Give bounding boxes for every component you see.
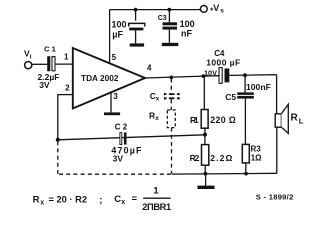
svg-text:1: 1 [64, 52, 69, 61]
svg-text:220 Ω: 220 Ω [210, 115, 236, 125]
svg-text:100nF: 100nF [246, 82, 271, 92]
svg-text:x: x [121, 199, 125, 206]
svg-text:3: 3 [113, 92, 118, 101]
svg-text:R: R [149, 111, 155, 121]
svg-text:= 20 · R2: = 20 · R2 [49, 194, 88, 204]
svg-text:C: C [114, 194, 121, 205]
svg-text:R: R [291, 113, 299, 124]
svg-text:µF: µF [112, 29, 123, 39]
svg-text:10V: 10V [204, 68, 217, 77]
svg-text:2.2Ω: 2.2Ω [210, 153, 232, 163]
svg-text:C5: C5 [225, 92, 236, 102]
svg-text:R1: R1 [190, 115, 199, 125]
svg-text:1Ω: 1Ω [251, 153, 262, 162]
svg-text:2ΠBR1: 2ΠBR1 [142, 202, 171, 212]
svg-text:C 2: C 2 [115, 122, 128, 131]
svg-text:S - 1899/2: S - 1899/2 [256, 193, 293, 202]
svg-text:;: ; [99, 195, 102, 206]
svg-text:V: V [213, 3, 219, 13]
svg-text:i: i [30, 54, 32, 61]
svg-text:100: 100 [180, 19, 195, 29]
svg-text:nF: nF [181, 28, 192, 38]
svg-text:TDA 2002: TDA 2002 [81, 73, 119, 83]
svg-text:R3: R3 [251, 145, 262, 154]
svg-text:3V: 3V [113, 153, 124, 163]
svg-text:=: = [132, 194, 138, 204]
svg-text:x: x [156, 96, 160, 103]
svg-text:3V: 3V [39, 80, 50, 90]
svg-text:R: R [33, 195, 40, 206]
svg-text:C 1: C 1 [44, 45, 57, 54]
svg-text:4: 4 [147, 63, 152, 72]
svg-text:x: x [40, 199, 44, 206]
svg-text:1: 1 [153, 185, 159, 196]
svg-text:x: x [155, 115, 159, 122]
svg-text:1000 µF: 1000 µF [206, 58, 240, 68]
svg-text:R2: R2 [190, 153, 200, 163]
svg-text:C3: C3 [158, 15, 167, 22]
svg-text:100: 100 [112, 19, 127, 29]
svg-text:2: 2 [65, 84, 70, 93]
svg-text:5: 5 [112, 53, 117, 62]
svg-text:L: L [299, 116, 304, 125]
svg-text:s: s [220, 8, 224, 15]
